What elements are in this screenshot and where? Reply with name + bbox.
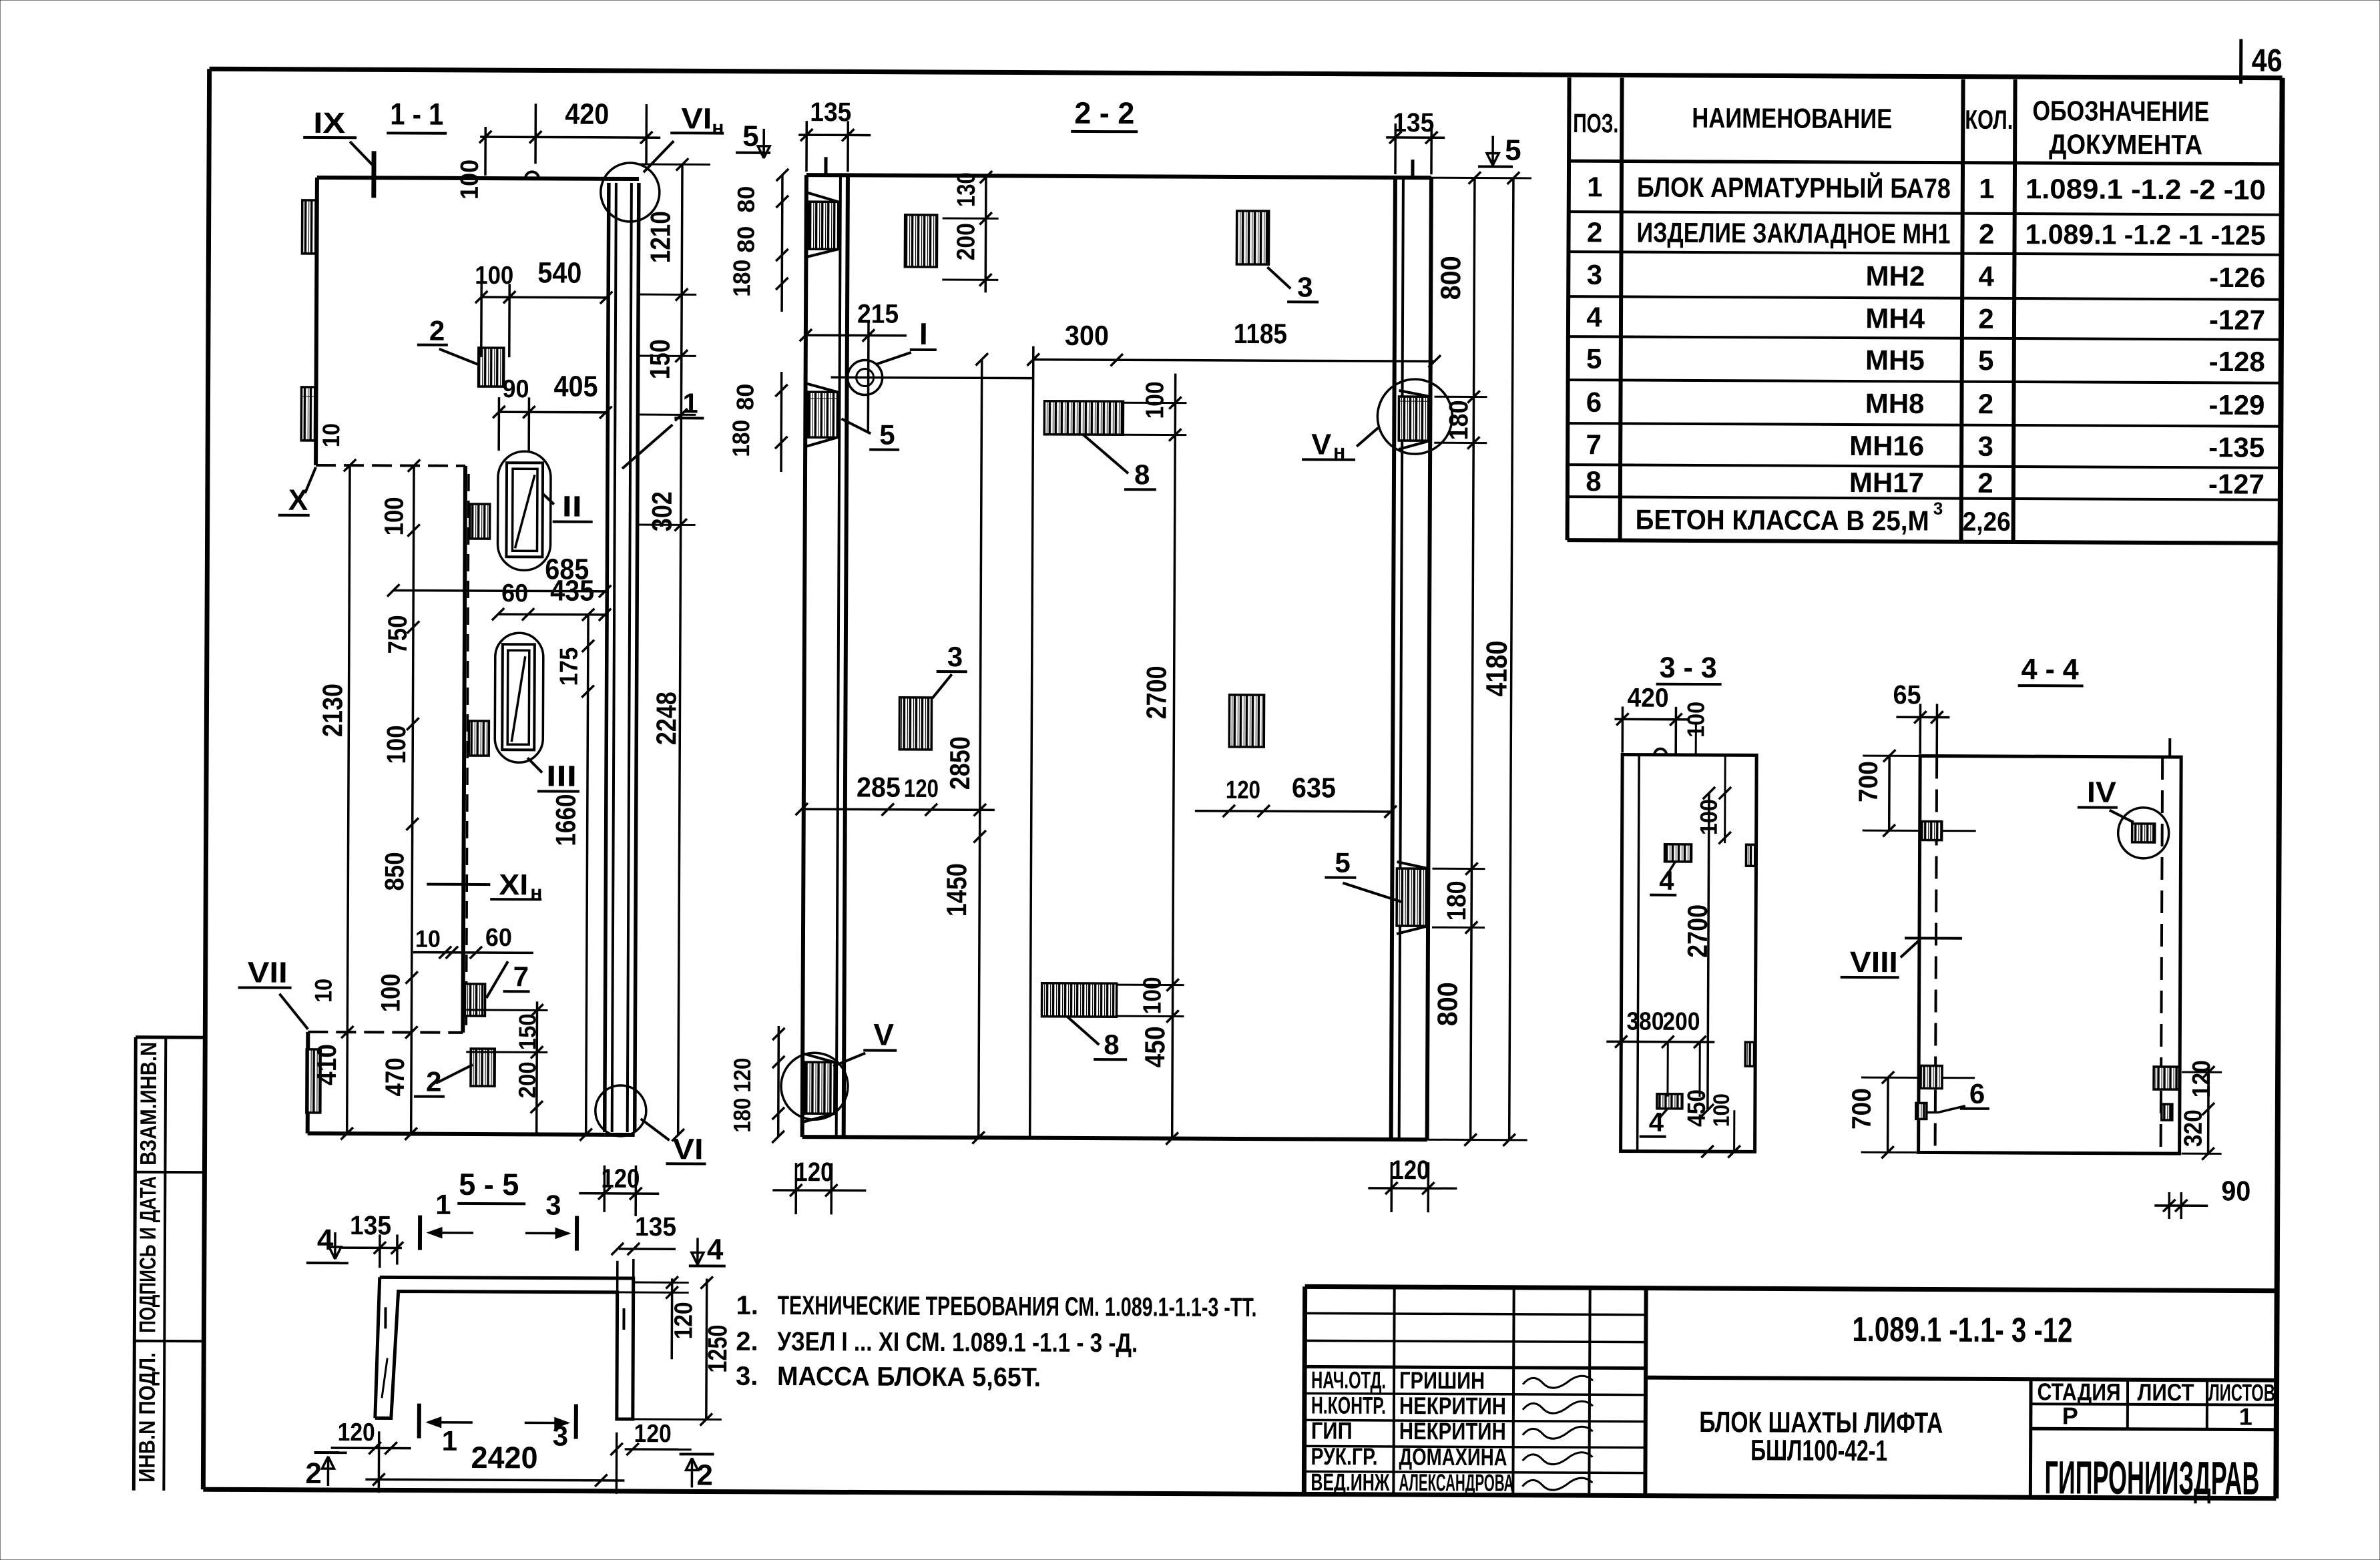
svg-text:7: 7 <box>513 961 529 992</box>
svg-text:X: X <box>288 484 308 517</box>
svg-text:1450: 1450 <box>941 863 972 917</box>
svg-text:700: 700 <box>1847 1088 1877 1129</box>
svg-text:2: 2 <box>429 315 445 346</box>
svg-text:III: III <box>546 760 577 792</box>
svg-text:120: 120 <box>728 1058 756 1093</box>
svg-text:2 - 2: 2 - 2 <box>1074 95 1134 130</box>
svg-text:1: 1 <box>442 1425 458 1457</box>
svg-text:МН17: МН17 <box>1849 467 1924 498</box>
svg-text:МН16: МН16 <box>1849 430 1924 461</box>
svg-text:3: 3 <box>1587 259 1603 290</box>
svg-text:БШЛ100-42-1: БШЛ100-42-1 <box>1750 1434 1887 1467</box>
svg-text:10: 10 <box>310 979 337 1003</box>
svg-text:450: 450 <box>1683 1089 1711 1127</box>
svg-text:4: 4 <box>1979 260 1995 292</box>
svg-text:ТЕХНИЧЕСКИЕ ТРЕБОВАНИЯ СМ. 1.0: ТЕХНИЧЕСКИЕ ТРЕБОВАНИЯ СМ. 1.089.1-1.1-3… <box>777 1291 1256 1322</box>
svg-text:635: 635 <box>1292 772 1336 803</box>
svg-text:2700: 2700 <box>1682 904 1713 958</box>
svg-text:700: 700 <box>1854 761 1883 802</box>
svg-text:2.: 2. <box>736 1327 758 1356</box>
svg-text:200: 200 <box>1662 1008 1700 1036</box>
svg-text:8: 8 <box>1134 459 1150 490</box>
svg-text:-127: -127 <box>2209 304 2265 335</box>
svg-text:ВЕД.ИНЖ: ВЕД.ИНЖ <box>1311 1468 1389 1496</box>
svg-text:850: 850 <box>380 852 409 890</box>
svg-text:5: 5 <box>742 120 759 153</box>
svg-text:3: 3 <box>1933 499 1943 519</box>
svg-text:ЛИСТ: ЛИСТ <box>2137 1378 2194 1406</box>
svg-text:-127: -127 <box>2208 468 2265 499</box>
svg-text:3: 3 <box>553 1420 569 1452</box>
svg-text:2: 2 <box>696 1459 713 1491</box>
svg-text:540: 540 <box>537 256 581 289</box>
svg-text:120: 120 <box>794 1157 833 1187</box>
svg-text:300: 300 <box>1065 320 1109 351</box>
svg-text:2850: 2850 <box>944 736 975 790</box>
svg-text:120: 120 <box>904 775 939 803</box>
svg-text:90: 90 <box>2221 1175 2250 1206</box>
svg-text:УЗЕЛ I ... XI СМ. 1.089.1 -1.1: УЗЕЛ I ... XI СМ. 1.089.1 -1.1 - 3 -Д. <box>777 1327 1138 1358</box>
svg-text:80: 80 <box>732 186 760 213</box>
svg-text:НАИМЕНОВАНИЕ: НАИМЕНОВАНИЕ <box>1692 102 1892 134</box>
svg-text:II: II <box>562 491 582 523</box>
svg-text:180: 180 <box>727 420 754 457</box>
svg-text:5: 5 <box>1978 344 1994 376</box>
svg-text:СТАДИЯ: СТАДИЯ <box>2037 1378 2120 1406</box>
svg-text:БЕТОН КЛАССА В 25,М: БЕТОН КЛАССА В 25,М <box>1636 504 1929 537</box>
svg-text:1.089.1 -1.1- 3 -12: 1.089.1 -1.1- 3 -12 <box>1852 1310 2072 1350</box>
svg-text:120: 120 <box>634 1420 672 1448</box>
svg-text:3: 3 <box>947 641 963 672</box>
svg-text:180: 180 <box>1442 880 1471 921</box>
svg-text:120: 120 <box>2188 1060 2216 1097</box>
svg-text:VII: VII <box>248 957 288 989</box>
svg-text:135: 135 <box>1393 108 1434 138</box>
svg-text:2: 2 <box>1587 216 1603 248</box>
svg-text:6: 6 <box>1586 386 1602 418</box>
svg-text:ДОКУМЕНТА: ДОКУМЕНТА <box>2049 128 2202 160</box>
svg-text:380: 380 <box>1626 1008 1664 1036</box>
svg-text:1185: 1185 <box>1234 318 1287 349</box>
svg-text:60: 60 <box>501 579 528 607</box>
svg-text:МН4: МН4 <box>1865 302 1925 334</box>
svg-text:2: 2 <box>1978 388 1994 419</box>
svg-text:4: 4 <box>1586 301 1602 332</box>
svg-text:285: 285 <box>857 771 901 802</box>
svg-text:1250: 1250 <box>703 1324 732 1372</box>
svg-text:XI: XI <box>499 868 528 901</box>
svg-text:IX: IX <box>313 107 345 140</box>
svg-text:1 - 1: 1 - 1 <box>390 96 443 131</box>
svg-text:КОЛ.: КОЛ. <box>1965 105 2013 135</box>
svg-text:80: 80 <box>731 384 758 411</box>
svg-text:120: 120 <box>670 1302 698 1339</box>
svg-text:10: 10 <box>415 925 441 953</box>
svg-text:МН2: МН2 <box>1866 260 1925 292</box>
svg-text:1: 1 <box>1587 171 1603 202</box>
svg-text:1.089.1 -1.2 -2 -10: 1.089.1 -1.2 -2 -10 <box>2026 173 2266 206</box>
svg-text:1660: 1660 <box>550 794 581 846</box>
svg-text:VIII: VIII <box>1850 946 1898 979</box>
svg-text:100: 100 <box>456 160 484 200</box>
svg-text:3: 3 <box>545 1189 561 1220</box>
svg-text:2700: 2700 <box>1140 666 1172 719</box>
svg-text:НЕКРИТИН: НЕКРИТИН <box>1399 1392 1506 1420</box>
svg-text:6: 6 <box>1969 1078 1985 1109</box>
svg-text:ГИП: ГИП <box>1311 1416 1353 1444</box>
svg-text:420: 420 <box>565 98 609 131</box>
svg-text:-126: -126 <box>2209 262 2265 293</box>
svg-text:200: 200 <box>952 223 980 260</box>
svg-text:180: 180 <box>728 1098 756 1133</box>
svg-text:ПОЗ.: ПОЗ. <box>1573 109 1618 138</box>
svg-text:8: 8 <box>1586 465 1602 497</box>
svg-text:200: 200 <box>513 1061 541 1098</box>
svg-text:2420: 2420 <box>471 1440 537 1475</box>
svg-text:150: 150 <box>644 339 676 379</box>
svg-text:135: 135 <box>350 1211 391 1240</box>
svg-text:450: 450 <box>1139 1026 1170 1067</box>
svg-text:Н.КОНТР.: Н.КОНТР. <box>1311 1391 1386 1418</box>
svg-text:10: 10 <box>317 423 344 447</box>
svg-text:3 - 3: 3 - 3 <box>1660 652 1717 684</box>
svg-text:2130: 2130 <box>316 684 348 737</box>
svg-text:VI: VI <box>681 102 712 135</box>
svg-text:ОБОЗНАЧЕНИЕ: ОБОЗНАЧЕНИЕ <box>2032 95 2209 127</box>
svg-text:4180: 4180 <box>1481 641 1513 697</box>
svg-text:405: 405 <box>553 370 598 403</box>
svg-text:V: V <box>873 1017 894 1052</box>
svg-text:120: 120 <box>1226 776 1260 804</box>
svg-text:180: 180 <box>1444 400 1473 440</box>
svg-text:РУК.ГР.: РУК.ГР. <box>1311 1443 1377 1470</box>
svg-text:I: I <box>919 316 928 351</box>
svg-text:100: 100 <box>1709 1093 1734 1127</box>
svg-text:ГИПРОНИИЗДРАВ: ГИПРОНИИЗДРАВ <box>2044 1451 2259 1504</box>
svg-text:120: 120 <box>1391 1155 1429 1185</box>
svg-text:ИНВ.N ПОДЛ.: ИНВ.N ПОДЛ. <box>134 1352 160 1483</box>
svg-text:100: 100 <box>1141 381 1169 419</box>
svg-text:МН8: МН8 <box>1865 388 1925 419</box>
svg-text:4: 4 <box>707 1234 724 1266</box>
svg-text:100: 100 <box>380 497 409 535</box>
svg-text:АЛЕКСАНДРОВА: АЛЕКСАНДРОВА <box>1399 1469 1513 1497</box>
svg-text:60: 60 <box>485 924 512 952</box>
svg-text:ВЗАМ.ИНВ.N: ВЗАМ.ИНВ.N <box>136 1042 162 1165</box>
svg-text:3: 3 <box>1977 431 1993 462</box>
svg-text:1: 1 <box>435 1189 451 1220</box>
svg-text:-128: -128 <box>2209 346 2265 377</box>
svg-text:н: н <box>530 882 542 904</box>
svg-text:180: 180 <box>728 260 755 297</box>
svg-text:46: 46 <box>2252 43 2283 79</box>
svg-text:4: 4 <box>1659 866 1674 896</box>
svg-text:420: 420 <box>1627 684 1668 713</box>
svg-text:2248: 2248 <box>650 692 682 745</box>
svg-text:VI: VI <box>672 1133 703 1165</box>
svg-text:4 - 4: 4 - 4 <box>2021 653 2080 686</box>
svg-text:80: 80 <box>732 226 759 253</box>
svg-text:ЛИСТОВ: ЛИСТОВ <box>2208 1378 2275 1406</box>
svg-text:2: 2 <box>1979 218 1995 250</box>
svg-text:800: 800 <box>1431 982 1463 1026</box>
svg-text:135: 135 <box>810 97 851 127</box>
svg-text:МН5: МН5 <box>1865 344 1925 376</box>
svg-text:215: 215 <box>857 299 899 328</box>
svg-text:5: 5 <box>1335 847 1351 878</box>
svg-text:БЛОК АРМАТУРНЫЙ БА78: БЛОК АРМАТУРНЫЙ БА78 <box>1637 171 1951 204</box>
svg-text:120: 120 <box>601 1164 640 1194</box>
svg-text:-129: -129 <box>2208 389 2265 421</box>
svg-text:IV: IV <box>2087 776 2117 809</box>
svg-text:НАЧ.ОТД.: НАЧ.ОТД. <box>1311 1366 1386 1393</box>
svg-text:н: н <box>712 117 724 140</box>
svg-text:100: 100 <box>1138 977 1166 1014</box>
svg-text:2: 2 <box>305 1457 322 1490</box>
svg-text:ПОДПИСЬ И ДАТА: ПОДПИСЬ И ДАТА <box>135 1176 161 1333</box>
svg-text:3.: 3. <box>736 1362 758 1391</box>
svg-text:435: 435 <box>550 574 594 607</box>
svg-text:2,26: 2,26 <box>1963 507 2011 537</box>
svg-text:ИЗДЕЛИЕ ЗАКЛАДНОЕ МН1: ИЗДЕЛИЕ ЗАКЛАДНОЕ МН1 <box>1636 217 1950 250</box>
svg-text:410: 410 <box>312 1044 342 1085</box>
svg-text:Р: Р <box>2062 1402 2078 1429</box>
svg-text:1: 1 <box>2239 1403 2252 1431</box>
svg-text:150: 150 <box>513 1013 541 1050</box>
svg-text:5: 5 <box>1586 343 1602 374</box>
svg-text:-135: -135 <box>2208 431 2265 463</box>
svg-text:ДОМАХИНА: ДОМАХИНА <box>1399 1443 1507 1471</box>
svg-text:320: 320 <box>2180 1109 2208 1147</box>
svg-text:100: 100 <box>382 725 411 764</box>
svg-text:4: 4 <box>1649 1108 1664 1137</box>
svg-text:ГРИШИН: ГРИШИН <box>1399 1366 1485 1394</box>
svg-text:8: 8 <box>1104 1029 1120 1060</box>
svg-text:НЕКРИТИН: НЕКРИТИН <box>1399 1417 1506 1445</box>
svg-text:МАССА БЛОКА 5,65Т.: МАССА БЛОКА 5,65Т. <box>777 1362 1041 1392</box>
svg-text:175: 175 <box>555 647 583 686</box>
svg-text:65: 65 <box>1893 680 1921 710</box>
svg-text:7: 7 <box>1586 429 1602 460</box>
svg-text:5: 5 <box>1505 134 1521 167</box>
svg-text:V: V <box>1311 428 1332 461</box>
svg-text:1: 1 <box>1979 173 1995 204</box>
svg-text:1.: 1. <box>736 1291 758 1320</box>
svg-text:470: 470 <box>381 1057 410 1096</box>
svg-text:90: 90 <box>502 375 529 403</box>
svg-text:1210: 1210 <box>644 211 676 263</box>
svg-text:750: 750 <box>383 615 413 654</box>
svg-text:800: 800 <box>1435 256 1466 300</box>
svg-text:3: 3 <box>1297 271 1313 302</box>
svg-text:120: 120 <box>338 1418 375 1447</box>
svg-text:5: 5 <box>879 419 895 451</box>
svg-text:5 - 5: 5 - 5 <box>459 1167 519 1202</box>
svg-text:130: 130 <box>953 172 981 207</box>
svg-text:135: 135 <box>635 1212 676 1242</box>
svg-text:1.089.1 -1.2 -1 -125: 1.089.1 -1.2 -1 -125 <box>2025 218 2265 251</box>
svg-text:2: 2 <box>1978 303 1994 334</box>
svg-text:2: 2 <box>1977 467 1993 499</box>
svg-text:100: 100 <box>376 973 405 1012</box>
